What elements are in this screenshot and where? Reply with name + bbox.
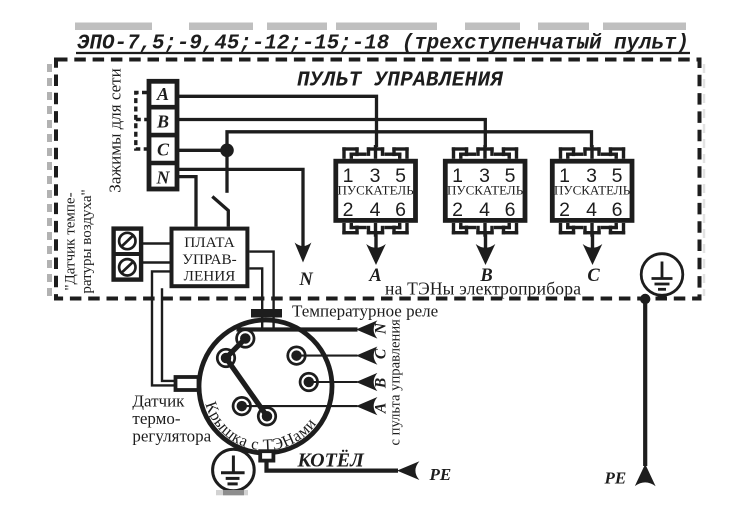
sensor terminal block (air sensor) [114,229,142,280]
arrow B output (down) [476,244,496,265]
label N (below arrow) [298,270,313,290]
wire sensor to board (upper) [141,242,169,244]
svg-text:4: 4 [479,199,490,221]
svg-text:6: 6 [612,199,623,221]
contactor KM3 [552,145,632,265]
label ПУСКАТЕЛЬ (KM1) [338,183,415,198]
wire sensor link T1-T6 [226,358,267,416]
earth shadow artifact [216,490,248,495]
wire C junction down to switch [225,150,228,193]
wire C feed to contactor C [227,132,592,151]
wire KM1 output [374,234,377,248]
svg-text:ПУСКАТЕЛЬ: ПУСКАТЕЛЬ [554,183,631,198]
earth symbol in panel [641,254,683,296]
label A output [368,266,381,286]
wire N to N arrow [179,169,303,247]
wire board to relay (lower right) [249,268,262,330]
earth symbol at boiler [213,449,255,491]
label Датчик терморегулятора [132,391,211,445]
label N (rotated) [373,322,390,335]
wire PE riser [643,299,647,466]
label B output [479,266,492,286]
title ЭПО model list [77,33,689,56]
switch SA blade [212,197,228,227]
thermo sensor plug on boiler [176,377,199,390]
label C (rotated) [373,348,390,359]
svg-text:2: 2 [343,199,354,221]
pin labels 2 4 6 (KM1) [343,199,406,221]
label ПУЛЬТ УПРАВЛЕНИЯ [297,69,503,92]
terminal label A [156,84,169,104]
svg-text:N: N [298,270,313,290]
control panel dashed border box [56,60,700,299]
label Датчик температуры воздуха (rotated) [63,189,95,293]
svg-text:C: C [587,266,600,286]
wire phase B to contactor B [179,120,485,148]
label A (rotated) [373,403,390,414]
svg-text:N: N [156,167,171,187]
label Температурное реле [292,302,438,321]
wire board to thermo sensor plug (left) [152,271,174,385]
arrow C output (down) [583,244,603,265]
terminal T6 [257,406,277,426]
terminal block X1 (A,B,C,N) [149,81,177,189]
artifact band above title [75,23,686,31]
svg-text:термо-: термо- [132,409,180,428]
terminal T2 [235,328,255,348]
contactor KM1 [336,161,416,220]
control board ПЛАТА УПРАВЛЕНИЯ [172,229,248,287]
svg-text:с пульта управления: с пульта управления [388,319,404,446]
label с пульта управления (rotated) [388,319,404,446]
wire N line to arrow [237,327,358,331]
wire boiler PE [267,460,399,470]
terminal T5 [232,396,252,416]
svg-text:ПУСКАТЕЛЬ: ПУСКАТЕЛЬ [447,183,524,198]
svg-text:КОТЁЛ: КОТЁЛ [297,449,366,472]
wire N stub to control board [179,177,196,227]
wire sensor link T2-T1 [226,339,245,359]
wire T3 to arrow C [297,355,358,357]
title underline [76,52,690,54]
arrow PE boiler (left) [397,461,419,480]
terminal T3 [286,346,306,366]
arrow N (down, to boiler) [295,243,312,263]
svg-text:PE: PE [429,465,452,484]
svg-text:2: 2 [452,199,463,221]
arrow C (left) [356,347,377,365]
arrow PE (up) [635,464,656,486]
svg-text:УПРАВ-: УПРАВ- [182,251,236,268]
svg-text:ЛЕНИЯ: ЛЕНИЯ [184,268,236,285]
thermo relay (black block) [251,309,282,318]
terminal label N [156,167,171,187]
arrow B (left) [356,373,377,391]
svg-text:B: B [156,112,169,132]
svg-text:C: C [157,139,170,159]
svg-text:Зажимы для сети: Зажимы для сети [105,68,124,192]
svg-text:6: 6 [395,199,406,221]
wire KM2 output [484,234,487,248]
contactor KM2 [445,145,525,265]
svg-text:A: A [156,84,169,104]
wire phase C to junction [179,149,227,152]
svg-text:"Датчик темпе-: "Датчик темпе- [63,192,79,290]
dashed grouping bracket for A,B,C [136,93,147,150]
boiler cover circle [199,320,332,453]
arrow A output (down) [366,244,386,265]
label КОТЁЛ [297,449,366,472]
wire sensor to board (lower) [141,261,169,263]
svg-text:4: 4 [370,199,381,221]
wire phase A to contactor A [179,96,377,147]
wire board to relay (upper right) [249,252,273,330]
svg-text:4: 4 [586,199,597,221]
arrow N (left) [356,320,377,338]
svg-text:ратуры воздуха": ратуры воздуха" [79,189,95,293]
svg-text:на ТЭНы электроприбора: на ТЭНы электроприбора [385,279,581,299]
terminal T1 [216,348,236,368]
terminal label C [157,139,170,159]
svg-text:2: 2 [559,199,570,221]
label PE right [604,469,627,488]
label C output [587,266,600,286]
label на ТЭНы электроприбора [385,279,581,299]
svg-text:6: 6 [505,199,516,221]
label Зажимы для сети (rotated) [105,68,124,192]
wire KM3 output [591,234,594,248]
svg-text:Температурное реле: Температурное реле [292,302,438,321]
label PE boiler [429,465,452,484]
svg-text:ПУСКАТЕЛЬ: ПУСКАТЕЛЬ [338,183,415,198]
arrow A (left) [356,397,377,415]
svg-text:PE: PE [604,469,627,488]
gray ghost of right dashed border [703,64,706,296]
label B (rotated) [373,378,390,389]
wire T5 to arrow A [242,405,358,407]
boiler PE stud [260,451,273,460]
gray ghost of left dashed border [47,64,52,296]
pin labels 1 3 5 (KM1) [343,165,407,187]
svg-text:регулятора: регулятора [132,427,211,446]
svg-text:Датчик: Датчик [132,391,185,410]
terminal T4 [299,372,319,392]
node PE junction on border [640,294,650,304]
svg-text:ПЛАТА: ПЛАТА [184,234,234,251]
terminal label B [156,112,169,132]
node junction on C [220,144,234,158]
svg-text:ПУЛЬТ УПРАВЛЕНИЯ: ПУЛЬТ УПРАВЛЕНИЯ [297,69,503,92]
svg-text:A: A [368,266,381,286]
wire board to thermo sensor plug (bottom) [162,288,174,381]
wire T4 to arrow B [309,381,358,383]
